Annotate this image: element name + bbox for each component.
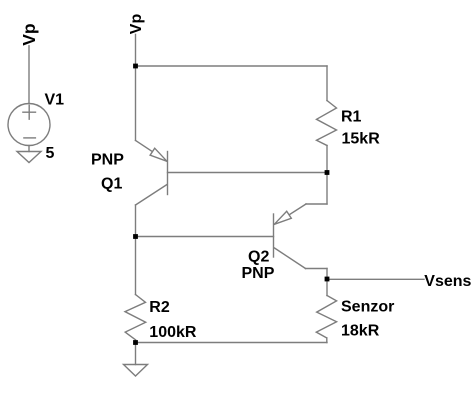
svg-text:PNP: PNP (242, 265, 275, 282)
svg-text:Vsens: Vsens (424, 273, 471, 290)
svg-text:Q2: Q2 (248, 249, 269, 266)
svg-text:100kR: 100kR (149, 324, 197, 341)
svg-text:18kR: 18kR (341, 323, 380, 340)
svg-text:Vp: Vp (128, 14, 145, 35)
svg-text:V1: V1 (45, 91, 65, 108)
svg-text:Q1: Q1 (101, 175, 122, 192)
svg-text:15kR: 15kR (342, 131, 381, 148)
svg-text:5: 5 (46, 145, 55, 162)
svg-text:R2: R2 (149, 299, 170, 316)
svg-text:PNP: PNP (91, 152, 124, 169)
svg-text:Vp: Vp (19, 23, 39, 45)
svg-text:Senzor: Senzor (341, 299, 394, 316)
svg-text:R1: R1 (341, 108, 362, 125)
